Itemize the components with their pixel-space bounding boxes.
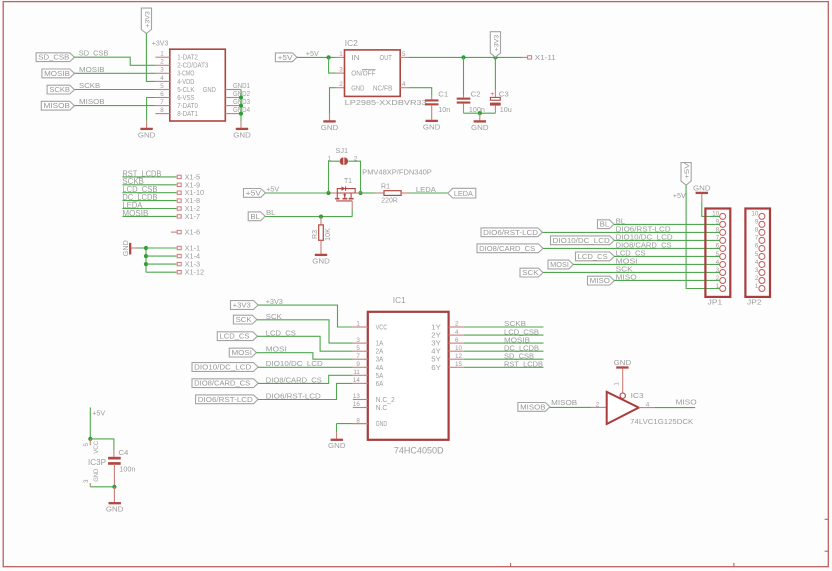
svg-text:5: 5	[402, 51, 406, 58]
junction GND4	[239, 112, 243, 116]
svg-text:SCK: SCK	[522, 268, 539, 277]
svg-text:LCD_CS: LCD_CS	[578, 252, 608, 261]
svg-text:SCKB: SCKB	[49, 85, 70, 94]
wire MISOB to IC3 input	[550, 406, 591, 408]
solder jumper SJ1	[329, 161, 340, 193]
svg-text:1: 1	[356, 321, 360, 328]
junction X1-1	[144, 246, 148, 250]
connector JP1 box	[705, 209, 730, 297]
svg-text:+3V3: +3V3	[144, 11, 151, 28]
svg-text:SCK: SCK	[236, 315, 252, 324]
svg-text:BL: BL	[266, 208, 276, 217]
svg-text:8: 8	[160, 107, 164, 114]
svg-text:100n: 100n	[119, 464, 135, 473]
svg-text:2: 2	[716, 275, 720, 282]
svg-text:3: 3	[160, 67, 164, 74]
svg-text:8-DAT1: 8-DAT1	[177, 109, 198, 118]
ground below C1	[426, 120, 438, 122]
svg-text:X1-11: X1-11	[535, 53, 556, 62]
svg-text:6: 6	[455, 337, 459, 344]
svg-text:JP1: JP1	[708, 297, 723, 306]
svg-text:DIO10/DC_LCD: DIO10/DC_LCD	[553, 236, 610, 245]
svg-text:4: 4	[455, 329, 459, 336]
svg-text:5: 5	[716, 251, 720, 258]
wire GND bus right of SD connector	[240, 90, 242, 122]
pin stub IC3P GND pin 3	[89, 483, 91, 487]
svg-text:MOSIB: MOSIB	[79, 65, 105, 74]
flag SCK	[520, 268, 543, 277]
svg-text:10n: 10n	[438, 105, 450, 114]
SD connector right GND pin stubs	[225, 89, 241, 91]
svg-text:IC1: IC1	[393, 296, 406, 305]
svg-text:VCC: VCC	[93, 441, 100, 454]
svg-text:5: 5	[356, 345, 360, 352]
svg-text:3: 3	[356, 337, 360, 344]
wire DC_LCDB	[464, 350, 544, 352]
wire MOSIB	[464, 342, 544, 344]
pin X1-6 endpoint	[171, 231, 177, 233]
svg-text:10K: 10K	[323, 228, 332, 241]
junction at C3	[493, 55, 497, 59]
svg-text:3: 3	[716, 267, 720, 274]
svg-text:6Y: 6Y	[431, 363, 441, 372]
svg-text:15: 15	[455, 361, 463, 368]
wire SCKB	[464, 326, 544, 328]
junction +5V node	[327, 55, 331, 59]
svg-text:3: 3	[755, 267, 759, 274]
svg-text:1: 1	[160, 51, 164, 58]
pin X1-9 endpoint	[177, 183, 181, 186]
wire MOSI to 3A	[256, 353, 352, 360]
svg-text:+5V: +5V	[92, 409, 106, 418]
JP2 pin circles	[759, 213, 765, 291]
wire LCD_CSB	[464, 334, 544, 336]
ground symbol rotated (X1 gnd)	[129, 243, 131, 255]
svg-text:+3V3: +3V3	[493, 34, 500, 51]
svg-text:BL: BL	[600, 220, 610, 229]
flag +5V (IC2 input)	[275, 53, 297, 62]
wire SD_CSB	[464, 358, 544, 360]
svg-text:10: 10	[712, 211, 720, 218]
svg-text:GND: GND	[423, 122, 441, 131]
svg-text:SJ1: SJ1	[336, 146, 349, 155]
svg-text:DIO10/DC_LCD: DIO10/DC_LCD	[194, 363, 251, 372]
svg-text:2: 2	[755, 275, 759, 282]
pin stub IC3 input pin 2	[591, 406, 607, 408]
wire MISO to JP1	[614, 279, 719, 281]
svg-text:NC/FB: NC/FB	[373, 83, 393, 92]
svg-text:12: 12	[455, 353, 463, 360]
wire MISO output	[655, 407, 695, 409]
wire LCD_CSB to X1-10	[122, 192, 176, 194]
svg-text:2: 2	[354, 155, 358, 162]
wire DIO10/DC_LCD to JP1	[614, 239, 719, 241]
svg-text:MISOB: MISOB	[520, 402, 546, 411]
svg-text:10u: 10u	[500, 105, 512, 114]
flag MOSIB	[42, 69, 75, 78]
flag +3V3 (IC1)	[231, 301, 259, 310]
junction SJ1 left	[326, 191, 330, 195]
supply +5V symbol (JP1)	[681, 163, 691, 185]
wire to ON/OFF pin	[329, 57, 336, 73]
wire to X1-12	[146, 271, 176, 273]
svg-text:6: 6	[160, 91, 164, 98]
pin X1-3 endpoint	[177, 262, 181, 265]
svg-text:7: 7	[160, 99, 164, 106]
svg-text:2: 2	[455, 321, 459, 328]
svg-text:MISO: MISO	[616, 273, 637, 282]
wire DIO6/RST-LCD to JP1	[542, 231, 719, 233]
wire to X1-4	[146, 255, 176, 257]
pin stub OUT	[400, 56, 409, 58]
wire gnd to IC3 enable pin 1	[622, 369, 624, 393]
flag BL	[598, 220, 615, 229]
wire gnd to JP1 pin 10	[701, 194, 703, 201]
pin X1-1 endpoint	[177, 246, 181, 249]
svg-text:MISO: MISO	[590, 276, 611, 285]
pin X1-7 endpoint	[177, 215, 181, 218]
svg-text:10: 10	[455, 345, 463, 352]
svg-text:GND: GND	[321, 123, 339, 132]
svg-text:GND: GND	[693, 183, 711, 192]
pin stub to gnd	[329, 114, 331, 121]
wire pin 6-VSS to GND	[147, 98, 156, 121]
svg-text:7: 7	[356, 353, 360, 360]
connector JP2 box	[745, 209, 770, 297]
wire MOSIB to X1-7	[122, 215, 176, 217]
wire R1 to LEDA flag	[410, 192, 448, 194]
svg-text:74LVC1G125DCK: 74LVC1G125DCK	[630, 417, 693, 426]
wire BL to gate and R3	[265, 216, 352, 218]
svg-text:IN: IN	[351, 53, 360, 62]
pin stub to gnd	[240, 121, 242, 128]
svg-text:1: 1	[755, 283, 759, 290]
wire DIO10/DC_LCD to 4A	[258, 366, 353, 368]
svg-text:9: 9	[716, 219, 720, 226]
IC3 enable bubble	[620, 393, 625, 398]
svg-text:GND: GND	[312, 256, 330, 265]
wire NC/FB to C1	[409, 88, 432, 96]
wire OUT rail +3V3	[409, 56, 522, 58]
ground below R3	[315, 254, 327, 256]
wire MISOB to pin 7	[74, 105, 155, 107]
junction GND2	[239, 95, 243, 99]
svg-text:DIO8/CARD_CS: DIO8/CARD_CS	[479, 244, 535, 253]
svg-text:1: 1	[614, 382, 621, 386]
wire C3 bottom	[494, 106, 496, 114]
op-amp IC1 box (74HC4050D)	[368, 312, 449, 440]
svg-text:4: 4	[160, 75, 164, 82]
op-amp IC2 box (LP2985 regulator)	[345, 50, 401, 97]
IC1 right pin stubs	[449, 326, 464, 328]
svg-text:2: 2	[596, 401, 600, 408]
junction GND3	[239, 104, 243, 108]
wire gnd bus to X1 pins	[137, 247, 146, 249]
svg-text:1: 1	[716, 283, 720, 290]
pin stub IC3P VCC pin 5	[89, 439, 91, 445]
svg-text:C4: C4	[118, 448, 128, 457]
wire DIO6/RST-LCD to 6A	[258, 383, 353, 399]
wire +5V to JP1 pin 1	[686, 185, 719, 289]
svg-text:7: 7	[755, 235, 759, 242]
flag SCK (IC1)	[233, 315, 257, 324]
svg-text:LEDA: LEDA	[454, 189, 473, 198]
svg-text:+5V: +5V	[246, 188, 262, 197]
pin stub 6-VSS gnd	[146, 121, 148, 128]
wire BL to JP1	[614, 223, 719, 225]
wire IC2 GND pin down	[330, 88, 336, 114]
wire C2 C3 gnd bus	[463, 103, 465, 113]
svg-text:X1-6: X1-6	[185, 228, 201, 237]
ground below IC1	[331, 439, 343, 441]
svg-text:GND: GND	[328, 441, 346, 450]
svg-text:3: 3	[83, 479, 90, 483]
supply +3V3 symbol above C3	[490, 32, 500, 57]
frame tick marks	[511, 519, 829, 566]
svg-text:5: 5	[755, 251, 759, 258]
flag MISOB (IC3)	[518, 403, 550, 412]
svg-text:LCD_CS: LCD_CS	[220, 332, 250, 341]
svg-text:7: 7	[716, 235, 720, 242]
svg-text:8: 8	[755, 227, 759, 234]
wire DC_LCDB to X1-8	[122, 200, 176, 202]
capacitor C3 polarized	[494, 90, 496, 98]
flag MOSI (IC1)	[229, 348, 256, 357]
wire +3V3 to C2	[463, 57, 465, 95]
svg-text:X1-12: X1-12	[185, 268, 205, 277]
pin stub ON/OFF	[336, 72, 345, 74]
svg-text:DIO8/CARD_CS: DIO8/CARD_CS	[194, 379, 250, 388]
svg-text:R1: R1	[381, 181, 390, 190]
pin stub gnd	[131, 247, 137, 249]
svg-text:GND: GND	[93, 469, 100, 482]
svg-text:14: 14	[353, 377, 361, 384]
wire +3V3 to pin 4-VDD	[146, 33, 155, 81]
svg-text:2: 2	[339, 81, 343, 88]
flag SCKB	[47, 85, 74, 94]
wire SCKB to pin 5	[74, 89, 155, 91]
svg-text:JP2: JP2	[747, 297, 762, 306]
svg-text:1: 1	[339, 51, 343, 58]
svg-text:4: 4	[716, 259, 720, 266]
capacitor C2	[463, 96, 465, 98]
svg-text:LP2985-XXDBVR33: LP2985-XXDBVR33	[345, 98, 427, 107]
svg-text:6: 6	[755, 243, 759, 250]
ground below SD connector right	[236, 128, 248, 130]
svg-text:GND: GND	[471, 123, 489, 132]
svg-text:MOSI: MOSI	[550, 260, 569, 269]
svg-text:13: 13	[353, 393, 361, 400]
resistor R3	[320, 217, 322, 225]
svg-text:+5V: +5V	[684, 162, 691, 179]
svg-text:+5V: +5V	[278, 53, 293, 62]
flag LCD_CS	[576, 252, 615, 261]
pin stub to gnd	[479, 113, 481, 120]
junction C4 gnd	[112, 485, 116, 489]
pin stub IC3 output pin 4	[639, 407, 655, 409]
svg-text:C1: C1	[438, 89, 448, 98]
svg-text:2: 2	[160, 59, 164, 66]
svg-text:GND: GND	[121, 240, 130, 256]
junction X1-3	[144, 262, 148, 266]
svg-text:GND: GND	[376, 419, 388, 428]
svg-text:VCC: VCC	[376, 323, 388, 332]
wire to X1-1	[146, 247, 176, 249]
flag +5V (T1)	[244, 189, 266, 198]
svg-text:OUT: OUT	[380, 53, 393, 62]
ground above JP1 (mirrored)	[696, 192, 708, 194]
svg-text:MOSIB: MOSIB	[44, 69, 70, 78]
svg-text:11: 11	[353, 369, 360, 376]
wire junction to C4	[90, 439, 114, 450]
capacitor C4	[113, 450, 115, 457]
flag DIO8/CARD_CS (IC1)	[192, 379, 258, 388]
pin stub C1 to gnd	[431, 105, 433, 120]
svg-text:6A: 6A	[376, 379, 384, 388]
flag LCD_CS (IC1)	[217, 332, 257, 341]
flag DIO6/RST-LCD (IC1)	[196, 395, 259, 404]
svg-text:4: 4	[402, 81, 406, 88]
flag DIO8/CARD_CS	[477, 244, 543, 253]
svg-text:R3: R3	[310, 230, 319, 239]
wire DIO8/CARD_CS to 5A	[258, 375, 353, 383]
wire SD_CSB to pin 2	[74, 57, 155, 65]
wire LCD_CS to 2A	[257, 336, 352, 351]
IC1 left pin stubs	[353, 326, 368, 328]
ground above IC3 (mirrored)	[616, 366, 628, 368]
pin X1-11 endpoint	[522, 56, 528, 58]
pin X1-12 endpoint	[177, 271, 181, 274]
JP1 pin circles	[720, 213, 726, 291]
svg-text:MISOB: MISOB	[551, 398, 577, 407]
wire +5V rail to T1	[265, 192, 330, 194]
ground below C4	[109, 502, 121, 504]
svg-text:10: 10	[751, 211, 759, 218]
wire SCKB to X1-9	[122, 184, 176, 186]
flag SD_CSB	[36, 53, 74, 62]
svg-text:+3V3: +3V3	[233, 301, 251, 310]
pin X1-10 endpoint	[177, 191, 181, 194]
svg-text:DIO6/RST-LCD: DIO6/RST-LCD	[483, 228, 538, 237]
svg-text:IC3P: IC3P	[88, 458, 106, 467]
svg-text:C3: C3	[499, 89, 509, 98]
supply +3V3 symbol (top left)	[141, 8, 151, 33]
svg-text:9: 9	[356, 361, 360, 368]
flag MISOB	[41, 101, 74, 110]
svg-text:ON/OFF: ON/OFF	[351, 69, 376, 78]
transistor IC3 buffer triangle	[607, 392, 639, 424]
flag MOSI	[548, 260, 573, 269]
pin X1-8 endpoint	[177, 199, 181, 202]
wire +5V to IN pin	[297, 56, 336, 58]
svg-text:3: 3	[339, 67, 343, 74]
svg-text:+5V: +5V	[673, 191, 687, 200]
svg-text:BL: BL	[250, 212, 260, 221]
overline on OFF	[362, 69, 376, 71]
ground below SD connector left	[140, 128, 152, 130]
svg-text:5: 5	[160, 83, 164, 90]
svg-text:GND: GND	[351, 83, 364, 92]
resistor R1	[361, 192, 376, 194]
svg-text:74HC4050D: 74HC4050D	[394, 446, 444, 456]
T1 gate wire	[351, 201, 353, 209]
svg-text:GND: GND	[203, 85, 216, 94]
pin stub to gnd	[113, 487, 115, 502]
wire +3V3 to C3	[494, 57, 496, 90]
svg-text:LEDA: LEDA	[416, 185, 437, 194]
flag DIO10/DC_LCD (IC1)	[192, 363, 258, 372]
pin stub GND of IC2	[336, 87, 345, 89]
svg-text:MOSI: MOSI	[232, 348, 253, 357]
svg-text:SCKB: SCKB	[79, 81, 100, 90]
junction at C2	[461, 55, 465, 59]
pin stub IN	[336, 56, 345, 58]
junction SJ1 right / drain	[358, 191, 362, 195]
svg-text:GND: GND	[614, 358, 632, 367]
svg-text:C2: C2	[471, 89, 481, 98]
svg-text:+3V3: +3V3	[152, 38, 169, 47]
wire to X1-3	[146, 263, 176, 265]
flag DIO6/RST-LCD	[481, 228, 542, 237]
wire MOSIB to pin 3	[74, 72, 155, 74]
svg-text:X1-7: X1-7	[185, 212, 201, 221]
svg-text:SD_CSB: SD_CSB	[79, 49, 109, 58]
wire DIO8/CARD_CS to JP1	[543, 247, 719, 249]
svg-text:IC3: IC3	[631, 391, 644, 400]
svg-text:100n: 100n	[469, 105, 485, 114]
svg-text:5: 5	[83, 443, 90, 447]
wire C4 bottom to gnd	[113, 464, 115, 487]
flag MISO	[588, 276, 615, 285]
wire SCK to JP1	[543, 271, 719, 273]
SD connector left pin stubs	[155, 56, 169, 58]
capacitor C1	[431, 96, 433, 100]
svg-text:IC2: IC2	[345, 39, 359, 48]
svg-text:16: 16	[353, 401, 361, 408]
wire RST_LCDB	[464, 366, 544, 368]
svg-text:DIO6/RST-LCD: DIO6/RST-LCD	[198, 395, 253, 404]
ground below C2 C3	[474, 120, 486, 122]
svg-text:4: 4	[755, 259, 759, 266]
flag DIO10/DC_LCD	[551, 236, 615, 245]
pin X1-4 endpoint	[177, 254, 181, 257]
svg-text:SD_CSB: SD_CSB	[38, 53, 69, 62]
wire MOSI to JP1	[573, 263, 719, 265]
svg-text:MISOB: MISOB	[44, 101, 71, 110]
flag BL	[248, 212, 265, 221]
wire RST_LCDB to X1-5	[122, 176, 176, 178]
wire IC3P gnd to C4 bottom	[90, 486, 114, 488]
svg-text:PMV48XP/FDN340P: PMV48XP/FDN340P	[362, 168, 432, 177]
flag LEDA	[448, 188, 476, 198]
pin X1-2 endpoint	[177, 207, 181, 210]
wire LEDA to X1-2	[122, 208, 176, 210]
pin X1-5 endpoint	[177, 175, 181, 178]
junction X1-4	[144, 254, 148, 258]
svg-text:8: 8	[716, 227, 720, 234]
junction R3	[319, 215, 323, 219]
svg-text:MISO: MISO	[676, 398, 697, 407]
ground below IC2	[323, 120, 335, 122]
wire LCD_CS to JP1	[614, 255, 719, 257]
wire +3V3 to IC1 VCC	[258, 305, 353, 327]
SD connector box	[170, 49, 226, 121]
wire IC1 GND pin	[337, 423, 353, 425]
svg-text:RST_LCDB: RST_LCDB	[504, 360, 543, 369]
svg-text:1: 1	[327, 155, 331, 162]
svg-text:T1: T1	[344, 176, 352, 185]
svg-text:9: 9	[755, 219, 759, 226]
